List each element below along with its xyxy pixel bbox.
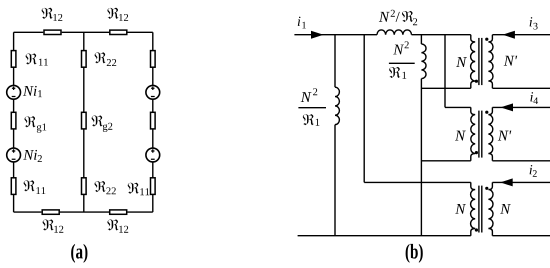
- resistor right-middle (unlabeled): [151, 112, 156, 129]
- wire T1 primary bottom: [421, 87, 470, 89]
- label R12 bottom-left: [43, 219, 64, 232]
- wire bottom rail / T3 primary bottom: [298, 235, 471, 237]
- wire T1 secondary bottom lead: [492, 87, 550, 89]
- wire bus C lower: [420, 79, 422, 236]
- label i4: [530, 92, 538, 104]
- transformer T1 (top) secondary polarity dot: [485, 38, 488, 41]
- label R22 lower: [95, 181, 116, 194]
- label T1 (top) secondary turns: [504, 56, 518, 66]
- inductor N2/R1 right (coil 2): [421, 44, 426, 79]
- label T3 (bottom) secondary turns: [500, 204, 511, 214]
- resistor Rg2: [82, 112, 87, 129]
- label N2/R2: [379, 10, 417, 25]
- caption (b): [406, 244, 423, 263]
- wire bottom rail of mesh (a): [14, 211, 153, 213]
- wire bus B: [364, 35, 471, 183]
- transformer T1 (top) primary winding: [471, 35, 476, 89]
- current arrow i2: [500, 178, 513, 186]
- resistor right-top (unlabeled): [151, 51, 156, 68]
- label R12 top-left: [42, 8, 63, 21]
- transformer T3 (bottom) secondary polarity dot: [485, 187, 488, 190]
- label T3 (bottom) primary turns: [455, 204, 466, 214]
- wire bus C upper stub: [420, 35, 422, 44]
- MMF source right-lower: [146, 148, 160, 162]
- label R11 lower-left: [24, 180, 46, 194]
- transformer T3 (bottom) primary winding: [471, 182, 476, 235]
- transformer T2 (middle) secondary polarity dot: [485, 111, 488, 114]
- resistor R12 top-left: [44, 30, 61, 34]
- label T1 (top) primary turns: [456, 57, 467, 67]
- resistor Rg1: [11, 112, 16, 129]
- label R12 bottom-right: [107, 219, 128, 232]
- transformer T3 (bottom) primary polarity dot: [475, 228, 478, 231]
- MMF source Ni2: [7, 148, 21, 162]
- label Rg1: [25, 116, 47, 132]
- current arrow i3: [502, 31, 515, 39]
- label R11 upper-left: [26, 53, 48, 65]
- resistor R22 lower: [82, 178, 87, 195]
- MMF source Ni1: [7, 85, 21, 99]
- label T2 (middle) secondary turns: [498, 131, 512, 141]
- wire i3 lead: [492, 34, 550, 36]
- label i1: [298, 17, 306, 29]
- MMF source right-upper: [146, 85, 160, 99]
- wire T3 secondary bottom lead: [492, 235, 550, 237]
- wire top rail of mesh (a): [14, 31, 153, 33]
- label Ni2: [23, 150, 42, 162]
- label T2 (middle) primary turns: [455, 131, 466, 141]
- label N2/R1 fraction right: [389, 41, 415, 78]
- resistor R22 upper: [82, 51, 87, 68]
- transformer T2 (middle) core: [479, 111, 482, 158]
- resistor R11 right-bottom: [151, 178, 156, 195]
- label Rg2: [92, 115, 113, 132]
- resistor R12 bottom-left: [42, 210, 59, 214]
- wire top node Q: [412, 34, 471, 36]
- wire left rail segments: [13, 32, 15, 212]
- current arrow i1: [311, 31, 324, 39]
- resistor R11 lower-left: [11, 178, 16, 195]
- wire port-1 top lead: [294, 34, 377, 36]
- current arrow i4: [501, 103, 514, 111]
- transformer T2 (middle) primary winding: [471, 107, 475, 160]
- wire middle rail segments: [83, 32, 85, 212]
- transformer T2 (middle) secondary winding: [488, 107, 492, 160]
- wire i2 lead: [492, 181, 550, 183]
- wire bus D: [445, 35, 471, 108]
- wire bus A lower: [334, 125, 336, 236]
- wire T2 secondary bottom lead: [492, 160, 550, 162]
- inductor N2/R2 (series): [377, 30, 412, 35]
- label i3: [530, 17, 538, 29]
- label i2: [530, 165, 537, 177]
- resistor R12 bottom-right: [110, 210, 127, 214]
- wire i4 lead: [492, 106, 550, 108]
- label Ni1: [23, 86, 42, 97]
- wire T2 primary bottom: [421, 160, 470, 162]
- transformer T3 (bottom) core: [479, 186, 482, 233]
- resistor R12 top-right: [110, 30, 127, 34]
- transformer T2 (middle) primary polarity dot: [475, 151, 478, 154]
- transformer T1 (top) secondary winding: [488, 35, 493, 89]
- transformer T3 (bottom) secondary winding: [488, 182, 493, 235]
- inductor N2/R1 left (coil 1): [335, 87, 339, 124]
- transformer T1 (top) primary polarity dot: [475, 80, 478, 83]
- label R12 top-right: [107, 8, 128, 21]
- wire bus A upper: [334, 35, 336, 87]
- label R22 upper: [95, 52, 117, 66]
- label N2/R1 fraction left: [298, 88, 326, 125]
- resistor R11 upper-left: [11, 51, 16, 68]
- wire right rail segments: [152, 32, 154, 212]
- label R11 right-bottom: [128, 183, 150, 196]
- caption (a): [71, 244, 87, 263]
- transformer T1 (top) core: [479, 38, 482, 85]
